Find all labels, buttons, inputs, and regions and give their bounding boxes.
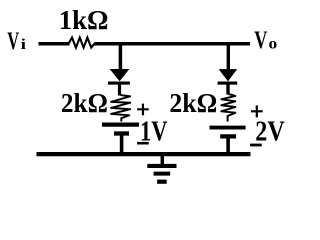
battery V2 negative plate (short)	[220, 134, 236, 138]
svg-text:2kΩ: 2kΩ	[169, 87, 217, 118]
label 2V of battery V2	[255, 116, 285, 147]
svg-text:V: V	[7, 26, 19, 55]
wire diode D1 to resistor R2	[118, 83, 121, 96]
diode D1 cathode bar	[108, 82, 130, 85]
svg-text:o: o	[269, 36, 278, 53]
wire battery V2 to bottom rail	[226, 139, 230, 155]
battery V2 positive plate (long)	[210, 126, 246, 130]
svg-text:1kΩ: 1kΩ	[59, 4, 109, 35]
diode D2 (anode triangle pointing down)	[219, 69, 238, 81]
label - of battery V2	[250, 144, 262, 147]
ground symbol bar 1	[147, 164, 176, 168]
svg-text:2V: 2V	[255, 116, 285, 147]
label + of battery V1	[137, 104, 149, 116]
diode D2 cathode bar	[218, 82, 238, 85]
battery V1 positive plate (long)	[102, 122, 139, 126]
node Vi	[7, 26, 26, 55]
svg-text:2kΩ: 2kΩ	[61, 87, 108, 118]
wire branch 1 from top rail to diode D1	[119, 44, 123, 71]
svg-text:i: i	[21, 37, 26, 53]
ground symbol bar 2	[154, 172, 171, 176]
label 1V of battery V1	[140, 116, 168, 147]
label R3 2kOhm	[169, 87, 217, 118]
wire battery V1 to bottom rail	[120, 135, 124, 154]
wire ground stem	[161, 155, 165, 165]
resistor R2 2kOhm (vertical sawtooth zigzag, branch 1)	[111, 95, 130, 122]
wire diode D2 to resistor R3	[226, 83, 229, 95]
label + of battery V2	[251, 105, 263, 117]
svg-text:V: V	[254, 25, 267, 54]
node Vo	[254, 25, 277, 54]
battery V1 negative plate (short)	[114, 131, 129, 135]
wire resistor R1 to node Vo	[94, 42, 250, 46]
label - of battery V1	[137, 142, 149, 145]
wire input to resistor R1	[39, 42, 70, 46]
diode D1 (anode triangle pointing down)	[110, 69, 130, 81]
label R2 2kOhm	[61, 87, 108, 118]
resistor R3 2kOhm (vertical sawtooth zigzag, branch 2)	[221, 93, 235, 122]
bottom rail wire	[37, 152, 251, 156]
ground symbol bar 3	[157, 180, 167, 184]
wire branch 2 from top rail to diode D2	[227, 44, 230, 71]
resistor R1 1kOhm (horizontal zigzag)	[69, 38, 95, 48]
label 1kOhm	[59, 4, 109, 35]
